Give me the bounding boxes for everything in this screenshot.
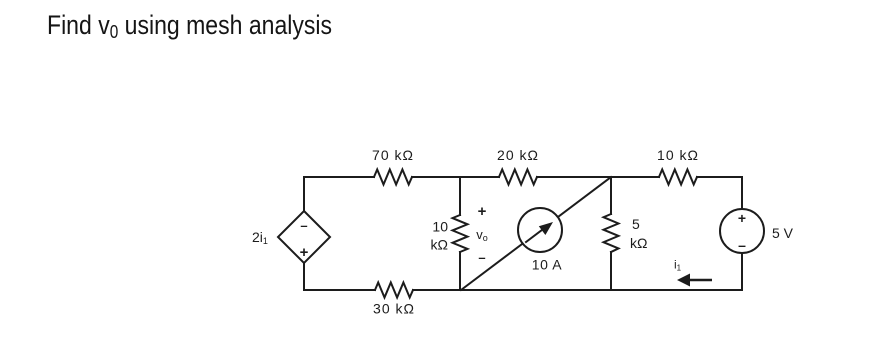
svg-text:30 kΩ: 30 kΩ bbox=[373, 301, 415, 317]
resistor R10t zigzag bbox=[659, 170, 697, 185]
svg-text:vo: vo bbox=[476, 227, 488, 243]
resistor R30 zigzag bbox=[375, 283, 413, 298]
svg-text:5 V: 5 V bbox=[772, 225, 794, 241]
wire v1 bottom bbox=[459, 252, 461, 290]
svg-text:–: – bbox=[738, 237, 746, 253]
svg-text:10: 10 bbox=[432, 219, 448, 235]
voltage source V5 circle bbox=[720, 209, 764, 253]
wire bottom bbox=[413, 289, 742, 291]
wire top mid2 bbox=[537, 176, 659, 178]
svg-text:–: – bbox=[300, 218, 307, 233]
svg-text:+: + bbox=[300, 244, 309, 261]
wire right bottom bbox=[741, 253, 743, 290]
current source arrowhead bbox=[539, 222, 553, 235]
dependent source diamond bbox=[278, 211, 330, 263]
title bbox=[47, 10, 332, 41]
svg-text:+: + bbox=[478, 203, 487, 220]
resistor R70 zigzag bbox=[374, 170, 412, 185]
svg-text:+: + bbox=[738, 210, 746, 226]
wire top right bbox=[697, 177, 742, 209]
resistor R5 zigzag bbox=[604, 214, 619, 252]
svg-text:–: – bbox=[478, 250, 485, 265]
resistor R10v zigzag bbox=[453, 215, 468, 252]
svg-text:20 kΩ: 20 kΩ bbox=[497, 147, 539, 163]
wire v2 bottom bbox=[610, 252, 612, 290]
wire bottom left bbox=[304, 263, 375, 290]
svg-text:2i1: 2i1 bbox=[252, 229, 268, 246]
wire top mid1 bbox=[412, 176, 499, 178]
resistor R20 zigzag bbox=[499, 170, 537, 185]
current source arrow shaft bbox=[526, 229, 543, 242]
svg-text:70 kΩ: 70 kΩ bbox=[372, 147, 414, 163]
svg-text:5: 5 bbox=[632, 216, 640, 232]
wire v2 top bbox=[610, 177, 612, 214]
svg-text:10 kΩ: 10 kΩ bbox=[657, 147, 699, 163]
wire diagonal bbox=[461, 177, 611, 290]
svg-text:kΩ: kΩ bbox=[630, 235, 647, 251]
svg-text:kΩ: kΩ bbox=[431, 237, 448, 253]
wire v1 top bbox=[459, 177, 461, 215]
svg-text:10 A: 10 A bbox=[532, 257, 562, 273]
current source I10 circle bbox=[518, 208, 562, 252]
wire top left bbox=[304, 177, 374, 211]
i1 current arrow bbox=[685, 279, 712, 282]
svg-text:i1: i1 bbox=[674, 258, 682, 273]
